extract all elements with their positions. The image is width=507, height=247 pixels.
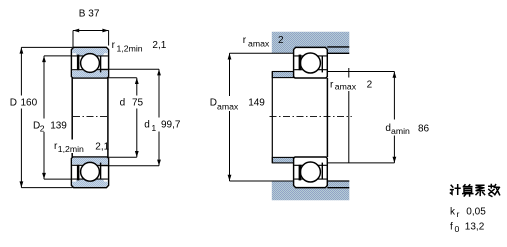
inner ring bottom section (left figure)	[72, 158, 108, 166]
svg-text:0: 0	[455, 224, 460, 234]
outer ring bottom section (right figure)	[294, 157, 328, 188]
svg-text:d: d	[144, 120, 150, 131]
shaft shoulder bottom sliver	[272, 157, 294, 163]
centerline (right figure)	[270, 115, 352, 117]
svg-text:B: B	[79, 8, 86, 19]
svg-text:2,1: 2,1	[152, 40, 166, 51]
shaft shoulder face line	[271, 72, 273, 163]
ra extension line	[348, 68, 350, 163]
outer ring top section (right figure)	[294, 47, 328, 78]
dimension D2 line	[42, 56, 72, 179]
svg-text:149: 149	[248, 97, 265, 108]
svg-text:D: D	[10, 98, 17, 109]
housing bore line right bottom	[327, 187, 349, 189]
label r 1,2min 2,1 top	[112, 40, 167, 53]
svg-text:160: 160	[21, 98, 38, 109]
dimension d1 line	[99, 69, 161, 166]
bore silhouette left edge (left figure)	[71, 78, 73, 157]
label r 1,2min 2,1 bottom	[52, 140, 110, 155]
label r amax 2 top	[243, 35, 284, 48]
dimension B line	[73, 29, 109, 47]
svg-text:d: d	[120, 97, 126, 108]
cage bottom (left figure)	[77, 165, 80, 181]
svg-text:1,2min: 1,2min	[117, 44, 143, 54]
bore silhouette right edge (left figure)	[107, 78, 109, 157]
svg-text:1: 1	[151, 123, 156, 133]
svg-text:99,7: 99,7	[161, 120, 181, 131]
svg-text:37: 37	[88, 8, 100, 19]
dimension damin line	[393, 72, 397, 163]
svg-text:amax: amax	[335, 82, 357, 92]
label d 75	[118, 96, 147, 109]
label Damax 149	[208, 96, 268, 111]
svg-text:75: 75	[132, 97, 144, 108]
housing bottom block	[272, 181, 350, 200]
svg-text:D: D	[210, 97, 217, 108]
svg-text:0,05: 0,05	[466, 206, 486, 217]
svg-text:amax: amax	[248, 38, 270, 48]
label kr 0,05	[450, 206, 486, 219]
glyph 系	[476, 185, 485, 195]
svg-text:2: 2	[367, 80, 373, 91]
ball bottom (left figure)	[81, 162, 100, 181]
label 计算系数 (calculation factors, CJK strokes)	[450, 185, 499, 197]
svg-text:2: 2	[278, 35, 284, 46]
dimension D line	[20, 47, 73, 187]
glyph 计	[450, 185, 460, 195]
housing bore line right top	[327, 46, 349, 48]
glyph 数	[489, 185, 500, 197]
cage top (right figure)	[299, 55, 302, 71]
label f0 13,2	[450, 222, 485, 235]
svg-text:f: f	[450, 222, 453, 233]
svg-text:amax: amax	[217, 101, 239, 111]
label D2 139	[31, 119, 69, 133]
svg-text:2,1: 2,1	[95, 141, 109, 152]
outer ring bottom section (left figure)	[71, 157, 108, 188]
label d1 99,7	[143, 118, 183, 132]
svg-text:amin: amin	[391, 126, 410, 136]
outer ring top section (left figure)	[71, 47, 108, 78]
cage top (left figure)	[77, 55, 80, 71]
dimension Damax line	[228, 53, 294, 181]
label D 160	[7, 96, 42, 109]
da top leader line	[327, 71, 394, 73]
cage bottom (right figure)	[299, 165, 302, 181]
label damin 86	[383, 120, 435, 136]
inner ring bottom section (right figure)	[294, 164, 327, 166]
bore silhouette right edge (right figure)	[326, 78, 328, 157]
da bottom leader line	[327, 162, 394, 164]
inner ring top section (left figure)	[72, 70, 108, 78]
glyph 算	[463, 185, 473, 196]
dimension d line	[109, 78, 139, 157]
label r amax 2 middle	[329, 78, 374, 92]
inner ring top section (right figure)	[294, 69, 327, 71]
svg-text:2: 2	[40, 124, 45, 134]
shaft shoulder top sliver	[272, 72, 294, 78]
ball top (left figure)	[81, 54, 100, 73]
ball bottom (right figure)	[300, 162, 320, 182]
svg-text:86: 86	[418, 123, 430, 134]
housing top block	[272, 32, 350, 54]
svg-text:139: 139	[50, 121, 67, 132]
centerline (left figure)	[73, 115, 108, 117]
svg-text:r: r	[457, 209, 460, 219]
ball top (right figure)	[300, 53, 320, 73]
svg-text:13,2: 13,2	[465, 222, 485, 233]
svg-text:1,2min: 1,2min	[58, 144, 84, 154]
